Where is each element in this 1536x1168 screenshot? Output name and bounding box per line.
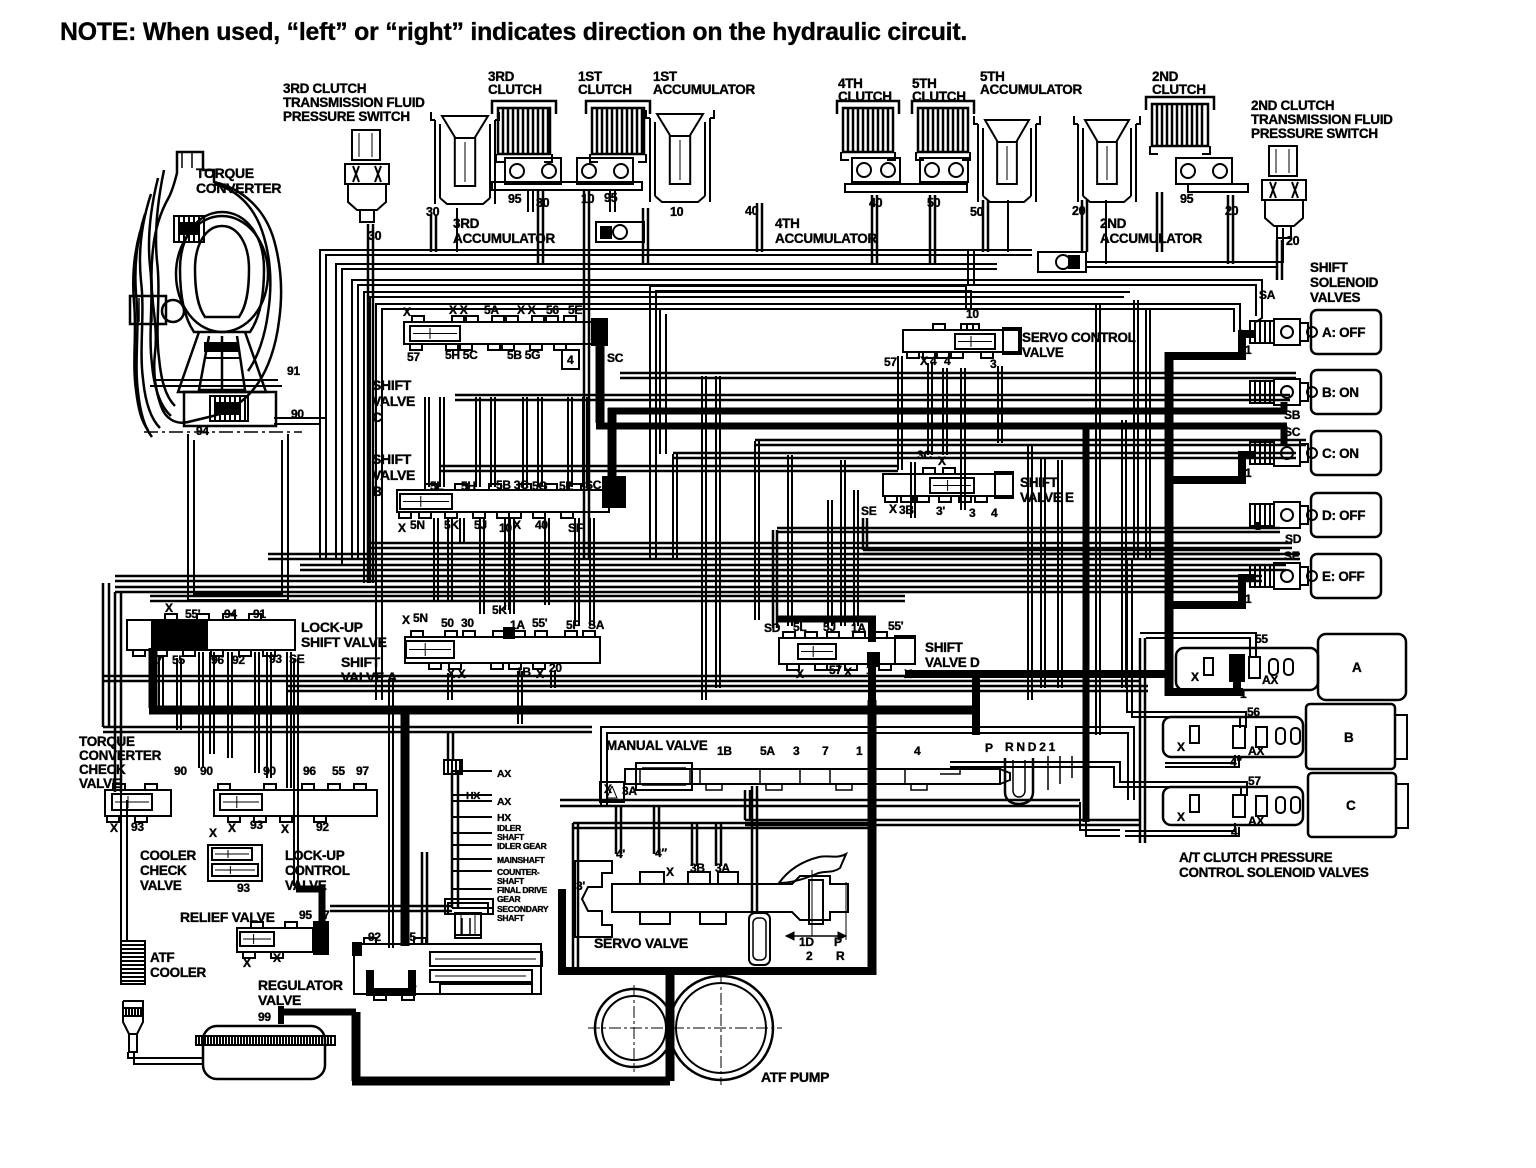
shift valve B bbox=[397, 490, 609, 512]
pressure control solenoid B box bbox=[1306, 704, 1395, 769]
svg-text:30: 30 bbox=[461, 616, 474, 630]
wire servo control valve feed bbox=[650, 286, 966, 560]
1st accumulator bbox=[649, 118, 651, 202]
svg-text:X: X bbox=[889, 502, 897, 516]
svg-text:C: ON: C: ON bbox=[1322, 446, 1359, 461]
svg-text:SHIFT: SHIFT bbox=[372, 451, 412, 467]
svg-text:ATF: ATF bbox=[150, 950, 174, 965]
shift valve A bbox=[405, 637, 600, 663]
svg-text:55: 55 bbox=[332, 764, 345, 778]
svg-text:X: X bbox=[209, 826, 217, 840]
torque converter bbox=[133, 152, 281, 437]
svg-text:99: 99 bbox=[258, 1010, 271, 1024]
thick solenoid C elbow bbox=[1165, 455, 1254, 480]
svg-text:X: X bbox=[904, 667, 912, 681]
shift solenoid E bbox=[1250, 565, 1274, 587]
svg-text:X: X bbox=[165, 601, 173, 615]
2nd accumulator bbox=[1077, 124, 1079, 202]
svg-text:X: X bbox=[920, 354, 928, 368]
wire servo valve frame bbox=[572, 823, 575, 969]
wire 95 stub 1st bbox=[609, 190, 611, 212]
shift solenoid C bbox=[1250, 442, 1274, 464]
svg-text:57: 57 bbox=[884, 355, 897, 369]
pressure control solenoid B bbox=[1163, 717, 1303, 757]
svg-text:3A: 3A bbox=[622, 784, 637, 798]
svg-text:90: 90 bbox=[174, 764, 187, 778]
svg-text:1A: 1A bbox=[851, 621, 866, 635]
torque converter check valve bbox=[105, 790, 171, 816]
svg-text:20: 20 bbox=[1286, 234, 1300, 248]
wire 5th clutch down bbox=[929, 195, 932, 264]
svg-text:5J: 5J bbox=[823, 620, 836, 634]
wire left edge feed verticals bbox=[1139, 638, 1142, 843]
svg-text:SE: SE bbox=[289, 652, 305, 666]
svg-text:X: X bbox=[1177, 740, 1185, 754]
thick regulator port U bbox=[370, 970, 412, 992]
svg-text:X: X bbox=[273, 951, 281, 965]
svg-text:1: 1 bbox=[1245, 343, 1252, 357]
svg-text:3': 3' bbox=[936, 504, 945, 518]
svg-text:4: 4 bbox=[991, 506, 998, 520]
hatched pump takeoff bbox=[444, 760, 462, 774]
svg-text:3RD CLUTCH: 3RD CLUTCH bbox=[283, 81, 366, 96]
thick servo valve bottom bbox=[558, 967, 872, 975]
thick lock-up shift valve blob bbox=[151, 620, 208, 649]
svg-text:5K: 5K bbox=[492, 603, 507, 617]
svg-text:1: 1 bbox=[856, 744, 863, 758]
manual valve bbox=[625, 769, 1000, 784]
thick solenoid D to SD bbox=[1256, 522, 1261, 530]
svg-text:4: 4 bbox=[944, 354, 951, 368]
svg-text:IDLER GEAR: IDLER GEAR bbox=[497, 841, 547, 851]
svg-text:4″: 4″ bbox=[1230, 755, 1242, 769]
svg-text:30: 30 bbox=[536, 196, 550, 210]
thick path SB from shift valve B bbox=[602, 476, 626, 508]
shift valve E bbox=[883, 474, 1013, 496]
svg-text:5J: 5J bbox=[474, 518, 487, 532]
wire long horizontals mid bbox=[620, 372, 1296, 375]
svg-text:7: 7 bbox=[156, 653, 163, 667]
svg-text:30: 30 bbox=[426, 205, 440, 219]
svg-text:93: 93 bbox=[131, 820, 144, 834]
baseplate 4th 5th bbox=[845, 184, 967, 192]
svg-text:1D: 1D bbox=[799, 935, 814, 949]
svg-text:X X: X X bbox=[447, 667, 466, 681]
svg-text:MAINSHAFT: MAINSHAFT bbox=[497, 855, 545, 865]
svg-text:1: 1 bbox=[366, 976, 373, 990]
svg-text:E: OFF: E: OFF bbox=[1322, 569, 1364, 584]
svg-text:SC: SC bbox=[1284, 425, 1301, 439]
svg-text:3C: 3C bbox=[917, 448, 932, 462]
thick branch to regulator bbox=[401, 712, 410, 946]
svg-text:5G: 5G bbox=[532, 479, 547, 493]
svg-text:95: 95 bbox=[299, 908, 312, 922]
svg-text:AX: AX bbox=[497, 796, 511, 808]
svg-text:COOLER: COOLER bbox=[150, 965, 207, 980]
svg-text:SB: SB bbox=[1284, 408, 1301, 422]
svg-text:REGULATOR: REGULATOR bbox=[258, 977, 343, 993]
svg-text:B: ON: B: ON bbox=[1322, 385, 1359, 400]
svg-text:X: X bbox=[403, 305, 411, 319]
wire frame top SA bbox=[376, 304, 1250, 700]
svg-text:97: 97 bbox=[356, 764, 369, 778]
svg-text:SC: SC bbox=[585, 478, 602, 492]
baseplate 3rd 1st bbox=[492, 182, 642, 190]
svg-text:VALVE D: VALVE D bbox=[925, 655, 980, 670]
svg-text:AX: AX bbox=[1248, 744, 1264, 758]
svg-text:30: 30 bbox=[368, 229, 382, 243]
pressure control solenoid A bbox=[1176, 648, 1318, 690]
wire inner frame bbox=[659, 309, 661, 454]
svg-text:VALVE: VALVE bbox=[258, 992, 301, 1008]
svg-text:55: 55 bbox=[1255, 632, 1268, 646]
svg-text:96: 96 bbox=[211, 653, 224, 667]
wire top bus right segment with check ball bbox=[1086, 228, 1283, 262]
svg-text:VALVE: VALVE bbox=[1022, 345, 1064, 360]
svg-text:A: A bbox=[1352, 660, 1362, 675]
svg-text:7: 7 bbox=[323, 908, 330, 922]
svg-text:SERVO VALVE: SERVO VALVE bbox=[594, 935, 688, 951]
svg-text:40: 40 bbox=[745, 204, 759, 218]
svg-text:1A: 1A bbox=[510, 618, 525, 632]
svg-text:4TH: 4TH bbox=[775, 216, 800, 231]
svg-text:SHAFT: SHAFT bbox=[497, 913, 525, 923]
svg-text:CLUTCH: CLUTCH bbox=[838, 89, 892, 104]
shift valve C bbox=[404, 322, 594, 344]
svg-text:X: X bbox=[1191, 670, 1199, 684]
svg-text:2ND CLUTCH: 2ND CLUTCH bbox=[1251, 98, 1334, 113]
svg-text:3B: 3B bbox=[899, 503, 914, 517]
thick line to pressure control A bbox=[1165, 688, 1243, 696]
svg-text:SE: SE bbox=[861, 504, 877, 518]
svg-text:C: C bbox=[1346, 798, 1356, 813]
svg-text:CONVERTER: CONVERTER bbox=[196, 180, 281, 196]
atf strainer bbox=[123, 1001, 143, 1034]
svg-text:VALVE: VALVE bbox=[372, 467, 415, 483]
shift solenoid A bbox=[1250, 321, 1274, 343]
servo valve bbox=[575, 854, 848, 937]
svg-text:SA: SA bbox=[588, 618, 605, 632]
svg-text:TRANSMISSION FLUID: TRANSMISSION FLUID bbox=[283, 95, 425, 110]
svg-text:AX: AX bbox=[1262, 673, 1278, 687]
svg-text:X: X bbox=[938, 454, 946, 468]
svg-text:92: 92 bbox=[316, 820, 329, 834]
svg-text:5A: 5A bbox=[484, 303, 499, 317]
thick solenoid E elbow bbox=[1165, 578, 1254, 605]
servo control valve bbox=[903, 330, 1019, 352]
svg-text:B: B bbox=[372, 483, 382, 499]
shift valve D bbox=[779, 638, 915, 664]
svg-text:VALVE: VALVE bbox=[140, 878, 182, 893]
svg-text:TORQUE: TORQUE bbox=[79, 734, 135, 749]
svg-text:X: X bbox=[844, 665, 852, 679]
svg-text:1B: 1B bbox=[516, 665, 531, 679]
svg-text:AX: AX bbox=[497, 768, 511, 780]
svg-text:VALVE: VALVE bbox=[285, 878, 327, 893]
1st clutch bbox=[592, 108, 644, 154]
svg-text:95: 95 bbox=[508, 192, 522, 206]
shift solenoid D bbox=[1250, 504, 1274, 526]
svg-text:93: 93 bbox=[269, 652, 282, 666]
wire pressure control solenoid C loop bbox=[950, 762, 1247, 796]
svg-text:1: 1 bbox=[1240, 687, 1247, 701]
svg-text:4: 4 bbox=[914, 744, 921, 758]
svg-text:4: 4 bbox=[567, 353, 574, 367]
svg-text:COOLER: COOLER bbox=[140, 848, 197, 863]
svg-text:P: P bbox=[834, 935, 842, 949]
wire columns below valve B bbox=[433, 518, 435, 600]
svg-text:5K: 5K bbox=[444, 518, 459, 532]
torque converter centerline bbox=[144, 431, 302, 433]
svg-text:1: 1 bbox=[866, 663, 873, 677]
svg-text:57: 57 bbox=[1248, 774, 1261, 788]
wire atf cooler to pan bbox=[128, 1052, 203, 1058]
svg-text:1B: 1B bbox=[717, 744, 732, 758]
svg-text:PRESSURE SWITCH: PRESSURE SWITCH bbox=[283, 109, 410, 124]
wire columns mid right bbox=[672, 454, 674, 560]
svg-text:SHIFT: SHIFT bbox=[372, 377, 412, 393]
2nd clutch pressure switch bbox=[1269, 146, 1297, 176]
svg-text:57: 57 bbox=[829, 663, 842, 677]
svg-text:X: X bbox=[1177, 810, 1185, 824]
svg-text:3: 3 bbox=[793, 744, 800, 758]
svg-text:90: 90 bbox=[291, 407, 304, 421]
wire left frame verticals bbox=[102, 583, 105, 727]
svg-text:10: 10 bbox=[670, 205, 684, 219]
wire 5th accumulator down bbox=[982, 200, 985, 252]
svg-text:56: 56 bbox=[1247, 705, 1260, 719]
svg-text:X: X bbox=[281, 822, 289, 836]
wire pressure control solenoid B loop bbox=[1127, 560, 1246, 728]
svg-text:20: 20 bbox=[1072, 204, 1086, 218]
svg-text:ACCUMULATOR: ACCUMULATOR bbox=[1100, 231, 1202, 246]
wire top bus line 3 bbox=[352, 280, 1262, 560]
svg-text:X: X bbox=[513, 518, 521, 532]
svg-text:50: 50 bbox=[970, 205, 984, 219]
thick relief valve feed bbox=[296, 889, 322, 925]
wire manual valve box bbox=[601, 727, 1134, 806]
wire 2nd clutch down bbox=[1156, 192, 1159, 252]
svg-text:4: 4 bbox=[930, 354, 937, 368]
5th clutch bbox=[918, 108, 968, 152]
svg-text:PRESSURE SWITCH: PRESSURE SWITCH bbox=[1251, 126, 1378, 141]
svg-text:5N: 5N bbox=[410, 518, 425, 532]
wire relief valve area bbox=[330, 905, 452, 908]
svg-text:CLUTCH: CLUTCH bbox=[488, 82, 542, 97]
svg-text:93: 93 bbox=[250, 818, 263, 832]
svg-text:92: 92 bbox=[232, 653, 245, 667]
svg-text:5N: 5N bbox=[413, 611, 428, 625]
lock-up control valve bbox=[214, 790, 377, 816]
wire pressure control solenoid A loop bbox=[1140, 633, 1256, 656]
svg-text:X: X bbox=[402, 613, 410, 627]
wire 1st accumulator down bbox=[642, 208, 645, 264]
svg-text:3': 3' bbox=[576, 879, 585, 893]
wire servo valve port feeds bbox=[615, 806, 618, 854]
svg-text:95: 95 bbox=[403, 930, 416, 944]
svg-text:P: P bbox=[985, 741, 993, 755]
thick regulator right border bbox=[558, 889, 566, 973]
svg-text:2: 2 bbox=[806, 949, 813, 963]
wire top bus line 1 bbox=[320, 250, 1032, 560]
svg-text:92: 92 bbox=[368, 930, 381, 944]
svg-text:3RD: 3RD bbox=[453, 216, 480, 231]
svg-text:2ND: 2ND bbox=[1100, 216, 1127, 231]
svg-text:D: OFF: D: OFF bbox=[1322, 508, 1365, 523]
svg-text:91: 91 bbox=[287, 364, 300, 378]
svg-text:90: 90 bbox=[263, 764, 276, 778]
svg-text:1: 1 bbox=[410, 976, 417, 990]
wire gear list bracket bbox=[452, 770, 492, 772]
svg-text:3: 3 bbox=[969, 506, 976, 520]
svg-text:AX: AX bbox=[1248, 814, 1264, 828]
wire 3rd pressure switch down bbox=[367, 224, 370, 583]
svg-text:56: 56 bbox=[546, 303, 559, 317]
shift solenoid B bbox=[1250, 381, 1274, 403]
svg-text:TORQUE: TORQUE bbox=[196, 165, 254, 181]
svg-text:SD: SD bbox=[764, 621, 781, 635]
svg-text:SF: SF bbox=[568, 521, 583, 535]
svg-text:LOCK-UP: LOCK-UP bbox=[285, 848, 345, 863]
svg-text:GEAR: GEAR bbox=[497, 894, 521, 904]
svg-text:SHIFT VALVE: SHIFT VALVE bbox=[301, 634, 387, 650]
thick L near valve D bbox=[905, 670, 1169, 678]
lock-up shift valve bbox=[127, 620, 295, 650]
rnd21 gate bbox=[1005, 758, 1033, 804]
svg-text:ATF PUMP: ATF PUMP bbox=[761, 1069, 829, 1085]
secondary shaft gear symbol bbox=[445, 899, 493, 914]
svg-text:X: X bbox=[228, 821, 236, 835]
svg-text:CLUTCH: CLUTCH bbox=[1152, 82, 1206, 97]
svg-text:20: 20 bbox=[549, 661, 562, 675]
wire SE line bbox=[863, 549, 1280, 552]
5th accumulator bbox=[977, 124, 979, 202]
oil pan bbox=[203, 1026, 325, 1079]
wire 92 95 to regulator bbox=[388, 679, 390, 948]
svg-text:55': 55' bbox=[888, 619, 904, 633]
wire top bus line 2 bbox=[336, 264, 997, 560]
3rd clutch pressure switch bbox=[352, 130, 380, 160]
svg-text:10: 10 bbox=[966, 307, 979, 321]
svg-text:ACCUMULATOR: ACCUMULATOR bbox=[775, 231, 877, 246]
svg-text:20: 20 bbox=[1225, 204, 1239, 218]
svg-text:55: 55 bbox=[172, 653, 185, 667]
cooler check valve bbox=[208, 845, 262, 881]
wire route y800 to C solenoid bbox=[1080, 802, 1120, 830]
svg-text:3B: 3B bbox=[690, 861, 705, 875]
thick path servo valve right bbox=[868, 700, 877, 975]
thick line SC bus bbox=[596, 423, 1287, 430]
svg-text:SHIFT: SHIFT bbox=[925, 640, 964, 655]
svg-text:X: X bbox=[604, 782, 612, 796]
3rd clutch bbox=[498, 108, 550, 154]
svg-text:CONTROL: CONTROL bbox=[285, 863, 350, 878]
svg-text:C: C bbox=[372, 409, 382, 425]
svg-text:4″: 4″ bbox=[655, 846, 667, 860]
svg-text:TRANSMISSION FLUID: TRANSMISSION FLUID bbox=[1251, 112, 1393, 127]
svg-text:5E: 5E bbox=[559, 479, 573, 493]
svg-text:95: 95 bbox=[604, 191, 618, 205]
svg-text:LOCK-UP: LOCK-UP bbox=[301, 619, 363, 635]
svg-text:10: 10 bbox=[581, 192, 595, 206]
svg-text:MANUAL VALVE: MANUAL VALVE bbox=[606, 738, 708, 753]
torque converter hub bbox=[184, 392, 276, 426]
svg-text:ACCUMULATOR: ACCUMULATOR bbox=[453, 231, 555, 246]
svg-text:X X: X X bbox=[449, 303, 468, 317]
thick mid vertical x1086 bbox=[1083, 426, 1090, 822]
svg-text:X: X bbox=[666, 865, 674, 879]
svg-text:VALVE E: VALVE E bbox=[1020, 490, 1074, 505]
svg-text:SE: SE bbox=[1284, 549, 1300, 563]
regulator valve bbox=[354, 944, 541, 994]
svg-text:40: 40 bbox=[869, 196, 883, 210]
svg-text:1: 1 bbox=[1245, 466, 1252, 480]
svg-text:95: 95 bbox=[1180, 192, 1194, 206]
svg-text:5H 5C: 5H 5C bbox=[445, 348, 478, 362]
svg-text:4: 4 bbox=[1231, 825, 1238, 839]
thick path lock-up down bbox=[149, 648, 158, 708]
svg-text:R: R bbox=[836, 949, 845, 963]
svg-text:SC: SC bbox=[607, 351, 624, 365]
torque converter lower box bbox=[188, 434, 288, 600]
svg-text:5H: 5H bbox=[461, 479, 476, 493]
2nd clutch bbox=[1152, 104, 1208, 146]
svg-text:VALVE: VALVE bbox=[372, 393, 415, 409]
svg-text:CLUTCH: CLUTCH bbox=[578, 82, 632, 97]
svg-text:55': 55' bbox=[532, 616, 548, 630]
wire 1st clutch pair down bbox=[583, 190, 586, 560]
wire C bottom port 4 bbox=[1125, 823, 1235, 831]
svg-text:VALVE: VALVE bbox=[79, 776, 121, 791]
svg-text:96: 96 bbox=[303, 764, 316, 778]
svg-text:X X: X X bbox=[517, 303, 536, 317]
wire frame bottom bbox=[103, 726, 592, 729]
wire 3rd accumulator down bbox=[430, 215, 433, 252]
svg-text:X: X bbox=[796, 667, 804, 681]
wire lower bus band bbox=[103, 675, 1140, 678]
svg-text:ACCUMULATOR: ACCUMULATOR bbox=[653, 82, 755, 97]
svg-text:SERVO CONTROL: SERVO CONTROL bbox=[1022, 330, 1136, 345]
svg-text:RELIEF VALVE: RELIEF VALVE bbox=[180, 909, 275, 925]
wire columns lower left bbox=[158, 656, 160, 710]
svg-text:90: 90 bbox=[200, 764, 213, 778]
thick solenoid vertical bus bbox=[1165, 352, 1174, 696]
thick line SB bus bbox=[608, 408, 1287, 415]
pressure control solenoid C box bbox=[1308, 773, 1396, 837]
svg-text:X: X bbox=[536, 667, 544, 681]
svg-text:55': 55' bbox=[185, 607, 201, 621]
wire 2nd accumulator down bbox=[1081, 200, 1084, 252]
svg-text:VALVES: VALVES bbox=[1310, 290, 1361, 305]
svg-text:X: X bbox=[398, 521, 406, 535]
svg-text:5F: 5F bbox=[566, 618, 579, 632]
svg-text:CONTROL SOLENOID VALVES: CONTROL SOLENOID VALVES bbox=[1179, 865, 1369, 880]
wire columns valve C to valve B bbox=[424, 397, 426, 487]
svg-text:SHIFT: SHIFT bbox=[1020, 475, 1059, 490]
svg-text:5E: 5E bbox=[568, 303, 582, 317]
thick solenoid A elbow bbox=[1165, 334, 1254, 356]
svg-text:50: 50 bbox=[927, 196, 941, 210]
svg-text:A/T CLUTCH PRESSURE: A/T CLUTCH PRESSURE bbox=[1179, 850, 1333, 865]
svg-text:B: B bbox=[1344, 730, 1354, 745]
wire 95 stub 3rd bbox=[527, 190, 529, 212]
wire lower right horizontals bbox=[745, 819, 1140, 822]
svg-text:HX: HX bbox=[466, 790, 480, 802]
svg-text:VALVE A: VALVE A bbox=[341, 669, 397, 685]
svg-text:CHECK: CHECK bbox=[79, 762, 126, 777]
baseplate 2nd bbox=[1188, 184, 1248, 192]
thick pan to pump loop bbox=[278, 1006, 284, 1024]
